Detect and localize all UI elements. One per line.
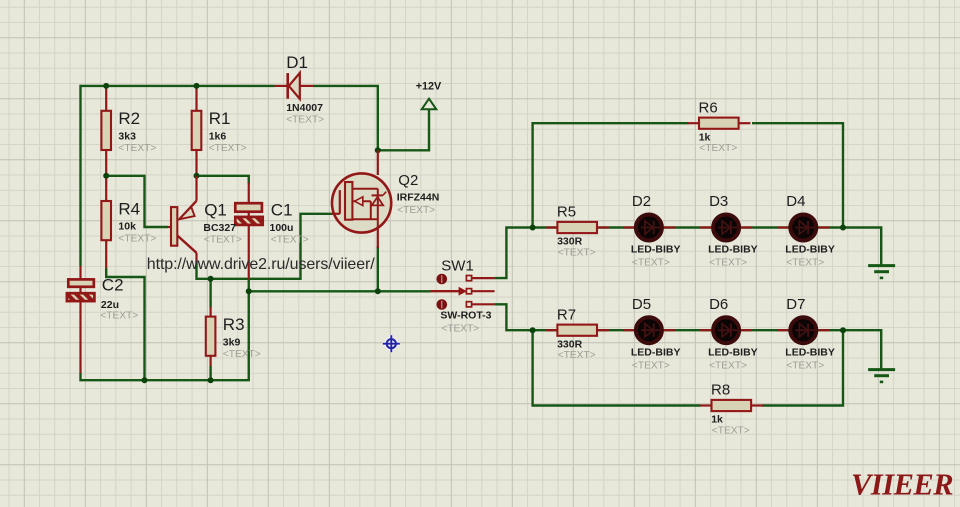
svg-text:R3: R3	[223, 315, 245, 334]
svg-text:22u: 22u	[101, 299, 119, 311]
svg-text:<TEXT>: <TEXT>	[441, 324, 479, 335]
wire Q1 collector to Q2 gate	[197, 214, 333, 279]
svg-text:http://www.drive2.ru/users/vii: http://www.drive2.ru/users/viieer/	[147, 256, 375, 273]
svg-text:+12V: +12V	[416, 81, 442, 93]
svg-text:R1: R1	[209, 109, 231, 128]
wire LED row 1	[533, 226, 843, 228]
svg-text:<TEXT>: <TEXT>	[632, 360, 670, 371]
svg-text:330R: 330R	[557, 338, 583, 350]
wire drain node to +12V	[378, 110, 429, 151]
svg-text:1k6: 1k6	[209, 131, 227, 143]
node: row2 right	[840, 327, 846, 333]
svg-text:D3: D3	[709, 193, 728, 210]
svg-text:C1: C1	[271, 200, 293, 219]
wire R4 bottom to bottom rail	[106, 268, 144, 380]
svg-text:D5: D5	[632, 296, 651, 313]
LED D2	[623, 193, 681, 269]
wire D1 to Q2 drain	[313, 86, 378, 150]
wire SW1 top contact to node A	[495, 228, 533, 279]
node: row2 left	[530, 327, 536, 333]
wire row 2 to ground	[843, 330, 881, 369]
svg-text:LED-BIBY: LED-BIBY	[708, 244, 758, 256]
svg-text:LED-BIBY: LED-BIBY	[708, 346, 758, 358]
svg-text:<TEXT>: <TEXT>	[699, 143, 737, 154]
url text	[147, 256, 375, 273]
wire SW1 bottom contact to node B	[495, 304, 533, 330]
svg-text:10k: 10k	[118, 221, 136, 233]
capacitor C2	[67, 266, 138, 373]
svg-text:D1: D1	[286, 53, 308, 72]
svg-text:D4: D4	[786, 193, 805, 210]
svg-text:LED-BIBY: LED-BIBY	[631, 346, 681, 358]
svg-text:1k: 1k	[711, 414, 723, 426]
svg-text:<TEXT>: <TEXT>	[286, 114, 324, 125]
svg-text:<TEXT>: <TEXT>	[558, 248, 596, 259]
LED D6	[700, 296, 758, 372]
wire C1 bottom to source net	[248, 279, 250, 291]
svg-text:1N4007: 1N4007	[286, 102, 323, 114]
diode D1	[275, 53, 325, 125]
wire R3 stem	[209, 279, 211, 307]
svg-text:<TEXT>: <TEXT>	[118, 233, 156, 244]
svg-text:<TEXT>: <TEXT>	[100, 310, 138, 321]
svg-text:<TEXT>: <TEXT>	[209, 143, 247, 154]
svg-text:Q2: Q2	[398, 172, 418, 189]
wire LED row 2	[533, 329, 843, 331]
capacitor C1	[235, 183, 308, 280]
svg-text:SW1: SW1	[441, 257, 474, 274]
wire R2/R4 node to Q1 base	[106, 176, 168, 227]
svg-text:<TEXT>: <TEXT>	[786, 258, 824, 269]
node: bottom rail / R3	[208, 377, 214, 383]
wire R8 to right rail	[762, 330, 843, 405]
wire Q2 source drop	[377, 246, 379, 291]
svg-text:100u: 100u	[270, 222, 294, 234]
resistor R1	[192, 86, 247, 176]
node: top rail / R2	[103, 83, 109, 89]
svg-text:IRFZ44N: IRFZ44N	[397, 192, 440, 204]
wire R1/emitter node to C1 top	[197, 176, 249, 184]
origin marker	[383, 335, 400, 352]
wire bottom-left rail	[81, 291, 249, 380]
wire left rail down to C2	[79, 85, 81, 266]
svg-text:<TEXT>: <TEXT>	[118, 143, 156, 154]
svg-text:Q1: Q1	[204, 201, 227, 220]
svg-text:<TEXT>: <TEXT>	[709, 258, 747, 269]
svg-text:<TEXT>: <TEXT>	[712, 426, 750, 437]
node: divider / R2-R4	[103, 173, 109, 179]
svg-text:R2: R2	[118, 109, 140, 128]
wire top rail (D1 cathode net)	[81, 85, 275, 87]
svg-text:R6: R6	[699, 99, 718, 116]
svg-text:R4: R4	[118, 199, 140, 218]
node: collector / R3	[208, 276, 214, 282]
logo VIIEER	[851, 468, 953, 502]
resistor R3	[206, 307, 261, 366]
svg-text:D7: D7	[786, 296, 805, 313]
transistor Q2	[332, 150, 439, 248]
node: bottom rail / R4 branch	[142, 377, 148, 383]
svg-text:R8: R8	[711, 382, 730, 399]
svg-text:330R: 330R	[557, 236, 583, 248]
svg-text:C2: C2	[102, 276, 124, 295]
resistor R8	[700, 382, 763, 437]
resistor R7	[546, 306, 609, 361]
svg-text:R5: R5	[557, 204, 576, 221]
wire R6 branch	[533, 123, 689, 227]
switch SW1	[431, 257, 495, 334]
node: source net / C1	[246, 288, 252, 294]
node: row1 right	[840, 225, 846, 231]
LED D4	[777, 193, 835, 269]
svg-text:R7: R7	[557, 306, 576, 323]
resistor R6	[688, 99, 751, 154]
svg-text:LED-BIBY: LED-BIBY	[631, 244, 681, 256]
LED D7	[777, 296, 835, 372]
svg-text:3k3: 3k3	[118, 131, 136, 143]
svg-text:1k: 1k	[699, 131, 711, 143]
transistor Q1	[168, 176, 242, 262]
node: source net / Q2	[375, 288, 381, 294]
resistor R5	[546, 204, 609, 259]
svg-text:LED-BIBY: LED-BIBY	[785, 244, 835, 256]
wire source net to switch pole	[249, 290, 431, 292]
svg-text:SW-ROT-3: SW-ROT-3	[440, 310, 491, 322]
wire R6 to right rail	[752, 123, 843, 227]
svg-text:<TEXT>: <TEXT>	[271, 234, 309, 245]
svg-text:<TEXT>: <TEXT>	[204, 234, 242, 245]
svg-text:D6: D6	[709, 296, 728, 313]
resistor R2	[101, 86, 156, 176]
wire R8 branch	[533, 330, 701, 405]
svg-text:<TEXT>: <TEXT>	[397, 205, 435, 216]
svg-text:<TEXT>: <TEXT>	[223, 349, 261, 360]
resistor R4	[101, 176, 156, 268]
ground (row 2)	[868, 370, 895, 382]
svg-text:D2: D2	[632, 193, 651, 210]
svg-text:<TEXT>: <TEXT>	[632, 258, 670, 269]
node: top rail / R1	[194, 83, 200, 89]
power +12V	[416, 81, 442, 110]
LED D3	[700, 193, 758, 269]
svg-text:VIIEER: VIIEER	[851, 468, 953, 502]
svg-text:LED-BIBY: LED-BIBY	[785, 346, 835, 358]
ground (row 1)	[868, 266, 895, 278]
svg-text:3k9: 3k9	[223, 336, 241, 348]
node: drain / +12V	[375, 147, 381, 153]
wire R3 bottom stem	[209, 366, 211, 380]
svg-text:<TEXT>: <TEXT>	[558, 350, 596, 361]
node: divider / R1-emitter	[194, 173, 200, 179]
svg-text:BC327: BC327	[203, 222, 236, 234]
wire row 1 to ground	[843, 228, 881, 266]
node: row1 left	[530, 225, 536, 231]
svg-text:<TEXT>: <TEXT>	[786, 360, 824, 371]
LED D5	[623, 296, 681, 372]
svg-text:<TEXT>: <TEXT>	[709, 360, 747, 371]
